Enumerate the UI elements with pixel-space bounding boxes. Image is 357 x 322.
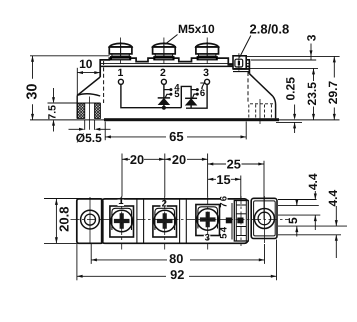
vertical centerline left hole bbox=[89, 197, 91, 243]
dim 4.4 second bbox=[335, 206, 337, 258]
dim 20.8 bbox=[44, 199, 79, 244]
phillips cross 3 bbox=[200, 212, 216, 228]
V2 gate wire to pin 6 bbox=[192, 94, 197, 98]
pin 7 dot bbox=[196, 88, 199, 91]
screw head circle 1 bbox=[111, 210, 132, 231]
pin 5 dot bbox=[169, 93, 172, 96]
terminal square 2 bbox=[153, 206, 177, 237]
svg-text:23.5: 23.5 bbox=[305, 82, 319, 106]
svg-text:5: 5 bbox=[174, 89, 180, 100]
dim 30 extension top bbox=[30, 55, 110, 57]
right mounting hole inner bbox=[258, 212, 271, 225]
phillips cross 2 bbox=[157, 213, 173, 229]
flange seat line bbox=[48, 102, 101, 104]
left mounting hole inner bbox=[85, 214, 96, 225]
right side reference lines bbox=[246, 56, 339, 122]
right mounting hole outer bbox=[254, 209, 274, 229]
terminal square 3 bbox=[196, 205, 220, 236]
clamp washer arc 2 bbox=[155, 208, 175, 230]
right flange inner outline bbox=[254, 201, 276, 236]
label 1 (bottom view) bbox=[118, 200, 125, 207]
flange left edge bbox=[76, 95, 78, 118]
svg-text:65: 65 bbox=[169, 129, 183, 144]
svg-text:10: 10 bbox=[79, 57, 93, 71]
svg-text:3: 3 bbox=[305, 34, 319, 41]
screw terminal 1 bbox=[109, 38, 132, 65]
dim 5 bbox=[296, 200, 298, 237]
svg-text:4.4: 4.4 bbox=[306, 173, 320, 190]
flange dome top bbox=[77, 94, 100, 96]
labels 7 6 (rotated) bbox=[221, 195, 228, 209]
svg-text:2: 2 bbox=[160, 67, 166, 79]
dim 80 bbox=[91, 244, 265, 264]
svg-text:20.8: 20.8 bbox=[56, 207, 71, 232]
screw terminal 3 bbox=[196, 38, 219, 65]
svg-text:M5x10: M5x10 bbox=[178, 22, 215, 36]
aux faston tab inner bbox=[237, 218, 243, 224]
faston tab block 2.8x0.8 bbox=[233, 53, 249, 71]
dim 0.25 bbox=[294, 105, 296, 134]
hidden case wall dashed left bbox=[103, 61, 105, 103]
svg-text:1: 1 bbox=[118, 196, 124, 207]
terminal square 1 bbox=[110, 206, 134, 237]
V1 gate wire to pin 5 bbox=[165, 94, 171, 98]
pin 7 stub (aux cathode) bbox=[191, 89, 197, 91]
thyristor V2 anode stub bbox=[190, 105, 192, 108]
left flange (sectioned) bbox=[48, 94, 101, 130]
svg-text:Ø5.5: Ø5.5 bbox=[76, 131, 102, 145]
dim 4.4 first bbox=[314, 191, 316, 230]
dim 23.5 bbox=[313, 68, 315, 120]
thyristor V2 cathode bar bbox=[185, 97, 197, 99]
pin 4 dot bbox=[169, 88, 172, 91]
vertical centerline screw 2 bbox=[164, 196, 166, 250]
left slant to flange bbox=[77, 77, 100, 95]
svg-text:4.4: 4.4 bbox=[326, 190, 340, 207]
right flange hidden hole dashed bbox=[249, 104, 276, 119]
svg-text:92: 92 bbox=[170, 267, 184, 282]
thyristor V2 triangle bbox=[186, 99, 197, 105]
svg-text:6: 6 bbox=[200, 88, 205, 99]
leader M5x10 bbox=[165, 35, 177, 45]
svg-text:5: 5 bbox=[286, 217, 300, 224]
aux terminal strip bbox=[232, 201, 248, 242]
junction dot node A rail bbox=[162, 106, 166, 110]
right flange bottom view bbox=[251, 198, 277, 238]
svg-text:25: 25 bbox=[227, 157, 241, 172]
screw head circle 3 bbox=[197, 209, 218, 230]
right flange outer edge bbox=[273, 96, 276, 118]
phillips cross 1 bbox=[114, 213, 130, 229]
thyristor V1 cathode bar bbox=[158, 97, 170, 99]
svg-text:1: 1 bbox=[117, 67, 123, 79]
pin 6 dot bbox=[196, 93, 199, 96]
clamp washer arc 1 bbox=[112, 208, 132, 230]
case inner top line bbox=[100, 65, 249, 67]
mounting hole centerline bbox=[89, 97, 91, 130]
pin 4 stub (aux cathode) bbox=[164, 89, 171, 91]
flange hatch right block bbox=[95, 103, 101, 118]
thyristor V1 triangle bbox=[158, 98, 169, 104]
dim 10 line bbox=[77, 68, 100, 95]
terminal 1 pad circle bbox=[118, 79, 123, 84]
terminal 2 pad circle bbox=[161, 79, 166, 84]
module case top profile bbox=[100, 58, 249, 77]
svg-text:3: 3 bbox=[203, 67, 209, 79]
horizontal centerline bottom view bbox=[71, 218, 291, 220]
screw terminal 2 bbox=[153, 38, 176, 65]
left flange inner edge line bbox=[100, 199, 102, 243]
case outline bottom view bbox=[101, 199, 248, 243]
svg-text:20: 20 bbox=[130, 152, 144, 167]
dim 92 bbox=[77, 240, 277, 281]
vertical centerline aux strip bbox=[240, 196, 242, 246]
svg-text:29.7: 29.7 bbox=[326, 80, 340, 104]
flange hatch left block bbox=[77, 103, 84, 118]
svg-text:20: 20 bbox=[172, 152, 186, 167]
dim 7.5 line with arrows bbox=[53, 88, 55, 132]
label 2 (bottom view) bbox=[161, 201, 168, 208]
svg-text:30: 30 bbox=[25, 84, 41, 100]
vertical centerline screw 3 bbox=[207, 196, 209, 250]
right slant to flange bbox=[249, 74, 272, 97]
left mounting hole outer bbox=[81, 210, 100, 229]
svg-text:7.5: 7.5 bbox=[47, 105, 59, 120]
dim diameter 5.5 arrows bbox=[69, 120, 111, 130]
left flange bottom view bbox=[77, 199, 103, 243]
wire bridge from node A up over to thyristor V2 cathode bbox=[181, 86, 191, 107]
svg-text:15: 15 bbox=[216, 172, 230, 187]
module bottom thick baseplate line bbox=[104, 118, 279, 121]
barrier wall lines between sections bbox=[137, 199, 186, 243]
dim 65 extension lines bbox=[105, 122, 246, 141]
svg-text:0.25: 0.25 bbox=[284, 77, 298, 101]
vertical centerline right hole bbox=[263, 196, 265, 243]
dim 3 bbox=[310, 44, 312, 61]
labels 5 4 (rotated) bbox=[221, 227, 228, 241]
label 3 (bottom view) bbox=[204, 235, 211, 242]
right side reference lines bottom view bbox=[278, 200, 347, 235]
svg-text:54: 54 bbox=[219, 226, 230, 239]
leader 2.8/0.8 bbox=[240, 36, 251, 58]
right flange hole centerline bbox=[259, 99, 261, 124]
hidden case wall dashed right bbox=[247, 72, 249, 103]
terminal 3 pad circle bbox=[205, 79, 210, 84]
aux faston tab outer (pins 4-7 area) bbox=[226, 218, 232, 224]
clamp washer arc 3 bbox=[198, 207, 218, 229]
svg-text:2.8/0.8: 2.8/0.8 bbox=[250, 21, 290, 36]
vertical centerline screw 1 bbox=[121, 196, 123, 250]
wire terminal2 down to V1 cathode bbox=[163, 84, 165, 98]
svg-text:80: 80 bbox=[169, 251, 183, 266]
dim 29.7 bbox=[333, 56, 335, 120]
wire terminal3 down and rail to V2 anode bbox=[186, 84, 207, 108]
thyristor V1 anode stub bbox=[163, 105, 165, 109]
dim 20 20 extension lines bbox=[122, 154, 264, 220]
dim 30 line with arrows bbox=[32, 56, 34, 120]
svg-text:76: 76 bbox=[219, 195, 230, 208]
module bottom thin seating line bbox=[30, 119, 340, 121]
case front top edge (thin straight) bbox=[100, 62, 249, 64]
screw head circle 2 bbox=[154, 210, 175, 231]
wire terminal1 down and bottom rail to node A bbox=[121, 84, 181, 108]
